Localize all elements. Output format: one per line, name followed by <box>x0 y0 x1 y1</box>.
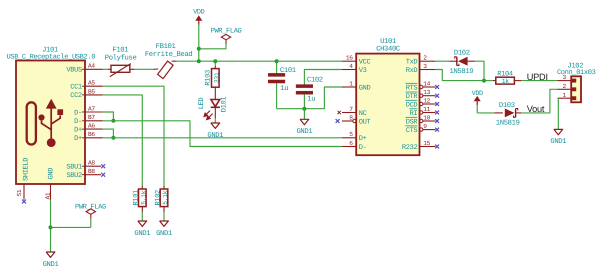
no-connect flag on pin 13 <box>435 94 439 98</box>
wire R104 to J102 pin 3 (UPDI net) <box>521 80 558 82</box>
U101 pin 6 (D-) <box>342 146 356 148</box>
svg-text:1u: 1u <box>307 95 315 103</box>
svg-text:A7: A7 <box>88 105 95 112</box>
svg-text:CTS: CTS <box>406 127 418 135</box>
svg-text:R103: R103 <box>205 70 213 86</box>
ground GND1 under J102 <box>554 129 563 134</box>
svg-text:B5: B5 <box>88 88 95 95</box>
wire VDD rail to U101 VCC <box>176 60 342 62</box>
svg-text:1N5819: 1N5819 <box>496 120 520 128</box>
svg-text:S1: S1 <box>16 189 23 196</box>
svg-text:15: 15 <box>423 140 430 147</box>
svg-text:R232: R232 <box>402 144 418 152</box>
svg-text:OUT: OUT <box>359 118 371 126</box>
J101 pin S1 (SHIELD) <box>23 184 25 200</box>
svg-text:D103: D103 <box>499 102 515 110</box>
J101 pin A1 (GND) <box>50 184 52 200</box>
wire D- to U101 pin 6 <box>103 121 342 147</box>
svg-text:D-: D- <box>74 109 82 117</box>
svg-text:DSR: DSR <box>406 118 419 126</box>
svg-text:A1: A1 <box>44 192 51 199</box>
no-connect flag on SHIELD pin <box>22 200 26 204</box>
svg-text:CC2: CC2 <box>70 92 82 100</box>
svg-text:USB_C_Receptacle_USB2.0: USB_C_Receptacle_USB2.0 <box>7 53 96 62</box>
diode D102 1N5819 <box>449 60 458 62</box>
U101 pin 11 (RI) <box>420 111 423 114</box>
svg-text:RTS: RTS <box>406 84 418 92</box>
ferrite bead FB101 <box>153 68 158 70</box>
J101 pin B7 (D-) <box>85 120 103 122</box>
svg-text:C102: C102 <box>307 77 323 85</box>
wire RxD to UPDI node <box>435 70 484 81</box>
svg-text:CH340C: CH340C <box>376 46 401 54</box>
capacitor C101 <box>268 73 285 76</box>
svg-text:1u: 1u <box>280 85 288 93</box>
junction caps ground rail <box>302 107 306 111</box>
no-connect flag on pin 9 <box>435 128 439 132</box>
U101 pin 14 (RTS) <box>420 85 423 88</box>
junction UPDI node <box>482 79 486 83</box>
svg-text:5: 5 <box>349 131 353 138</box>
U101 pin 13 (DTR) <box>420 94 423 97</box>
svg-text:3: 3 <box>423 63 427 70</box>
U101 pin 8 (OUT) <box>342 120 353 122</box>
ground GND1 under R102 <box>160 221 169 226</box>
svg-text:D+: D+ <box>74 135 82 143</box>
J101 pin A4 (VBUS) <box>85 68 103 70</box>
svg-text:D+: D+ <box>359 135 367 143</box>
svg-text:B6: B6 <box>88 131 95 138</box>
J102 pin 2 <box>558 88 572 90</box>
svg-text:A4: A4 <box>88 63 95 70</box>
junction D- pair <box>111 119 115 123</box>
U101 pin 9 (CTS) <box>420 128 423 131</box>
wire V3 pin to C102 <box>304 70 342 85</box>
svg-text:D102: D102 <box>454 49 470 57</box>
svg-text:B7: B7 <box>88 114 95 121</box>
junction VDD rail at C101 drop <box>275 59 279 63</box>
svg-text:GND1: GND1 <box>550 138 566 146</box>
wire CC2 to R101 <box>103 95 143 185</box>
wire USB GND pin down <box>50 200 52 253</box>
U101 pin 15 (R232) <box>420 146 436 148</box>
svg-text:CC1: CC1 <box>70 84 82 92</box>
J101 pin A7 (D-) <box>85 111 103 113</box>
U101 pin 16 (VCC) <box>342 60 356 62</box>
svg-text:DTR: DTR <box>406 93 419 101</box>
wire J102 pin 1 to ground <box>557 98 559 129</box>
svg-text:GND1: GND1 <box>296 128 312 136</box>
connector J101 USB_C_Receptacle_USB2.0 body <box>16 61 85 185</box>
U101 pin 7 (NC) <box>342 112 356 114</box>
no-connect flag on pin 12 <box>435 102 439 106</box>
capacitor C102 <box>296 85 313 88</box>
svg-text:GND1: GND1 <box>207 132 223 140</box>
svg-text:5.1k: 5.1k <box>162 190 169 204</box>
J101 pin B8 (SBU2) <box>85 174 101 176</box>
wire CC1 to R102 <box>103 86 164 185</box>
wire VDD symbol down to rail <box>198 25 200 62</box>
LED D101 emission arrows <box>204 111 213 120</box>
J101 pin A5 (CC1) <box>85 85 103 87</box>
svg-text:14: 14 <box>423 80 430 87</box>
wire polyfuse to ferrite bead <box>135 68 154 70</box>
no-connect marker on pin 7 (NC type) <box>338 111 341 114</box>
svg-text:NC: NC <box>359 110 367 118</box>
wire D102 to UPDI node <box>475 61 484 80</box>
U101 pin 5 (D+) <box>342 137 356 139</box>
svg-text:7: 7 <box>349 106 353 113</box>
svg-text:C101: C101 <box>280 67 296 75</box>
svg-text:UPDI: UPDI <box>527 72 548 82</box>
junction VDD rail at R103 drop <box>213 59 217 63</box>
wire VDD to D103 <box>477 112 494 114</box>
svg-text:9: 9 <box>423 123 427 130</box>
svg-text:RI: RI <box>410 110 418 118</box>
svg-text:VBUS: VBUS <box>66 67 82 75</box>
ground GND1 under R101 <box>138 221 147 226</box>
LED D101 <box>211 100 220 107</box>
U101 pin 4 (V3) <box>342 69 356 71</box>
svg-text:1: 1 <box>349 80 353 87</box>
svg-text:A5: A5 <box>88 80 95 87</box>
svg-text:SBU1: SBU1 <box>66 164 82 172</box>
wire VDD symbol down to Vout rail <box>476 105 478 113</box>
no-connect flag on pin 10 <box>435 119 439 123</box>
U101 pin 2 (TxD) <box>420 60 436 62</box>
svg-text:4: 4 <box>349 63 353 70</box>
wire rail to C101 <box>276 61 278 73</box>
svg-text:2: 2 <box>423 55 427 62</box>
resistor R104 <box>493 80 496 82</box>
svg-text:D-: D- <box>74 118 82 126</box>
wire D103 to Vout / J102 pin 2 <box>521 89 557 113</box>
svg-text:12: 12 <box>423 97 430 104</box>
svg-text:VDD: VDD <box>193 9 204 17</box>
svg-text:6: 6 <box>349 140 353 147</box>
ground GND1 under LED <box>211 123 220 128</box>
svg-text:16: 16 <box>346 55 353 62</box>
svg-text:Ferrite_Bead: Ferrite_Bead <box>145 50 193 59</box>
svg-text:GND1: GND1 <box>156 230 172 238</box>
svg-text:TxD: TxD <box>406 59 418 67</box>
no-connect flag on pin 14 <box>435 85 439 89</box>
svg-text:FB101: FB101 <box>156 43 176 51</box>
no-connect flag on pin 15 <box>435 145 439 149</box>
junction D+ pair <box>111 136 115 140</box>
resistor R102 <box>163 185 165 189</box>
wire UPDI node to R104 <box>484 80 493 82</box>
USB logo pill shape <box>27 102 36 144</box>
svg-text:1N5819: 1N5819 <box>450 68 474 76</box>
diode D103 1N5819 <box>494 112 503 114</box>
U101 pin 12 (DCD) <box>420 102 423 105</box>
svg-text:331: 331 <box>213 72 220 83</box>
no-connect flag on pin 8 OUT <box>336 119 340 123</box>
wire VBUS pin to polyfuse <box>103 68 108 70</box>
J101 pin A8 (SBU1) <box>85 165 101 167</box>
wire D- A7 to B7 <box>103 112 114 121</box>
svg-text:11: 11 <box>423 106 430 113</box>
svg-text:V3: V3 <box>359 67 367 75</box>
wire LED cathode to ground <box>214 107 216 118</box>
wire PWR_FLAG to VDD net <box>199 44 226 49</box>
U101 pin 1 (GND) <box>342 86 356 88</box>
no-connect flag on SBU2 pin <box>101 173 105 177</box>
svg-text:SHIELD: SHIELD <box>22 158 30 181</box>
junction GND / PWR_FLAG <box>49 225 53 229</box>
no-connect flag on SBU1 pin <box>101 164 105 168</box>
svg-text:SBU2: SBU2 <box>66 172 82 180</box>
svg-text:VCC: VCC <box>359 59 371 67</box>
svg-text:A6: A6 <box>88 123 95 130</box>
polyfuse F101 <box>108 68 111 70</box>
wire ground rail under caps <box>277 87 342 109</box>
svg-text:Vout: Vout <box>527 104 545 114</box>
U101 pin 3 (RxD) <box>420 69 436 71</box>
J101 pin A6 (D+) <box>85 128 103 130</box>
wire R103 to LED D101 <box>214 87 216 99</box>
svg-text:Polyfuse: Polyfuse <box>105 53 137 62</box>
U101 pin 10 (DSR) <box>420 119 423 122</box>
junction VDD rail at VDD drop <box>197 59 201 63</box>
svg-text:DCD: DCD <box>406 101 418 109</box>
svg-text:10: 10 <box>423 114 430 121</box>
junction VDD / PWR_FLAG <box>197 47 201 51</box>
wire C102 bottom to ground rail <box>303 94 305 109</box>
wire rail to R103 <box>214 61 216 66</box>
resistor R103 <box>214 66 216 69</box>
svg-text:D101: D101 <box>221 97 229 113</box>
svg-text:D-: D- <box>359 144 367 152</box>
wire C101 bottom to ground rail <box>276 83 278 109</box>
resistor R101 <box>141 185 143 189</box>
svg-text:GND: GND <box>359 84 371 92</box>
J102 pin 3 <box>558 80 572 82</box>
ground GND1 under capacitors <box>300 119 309 124</box>
svg-text:5.1k: 5.1k <box>140 190 147 204</box>
wire PWR_FLAG bottom to GND net <box>51 226 91 228</box>
svg-text:A8: A8 <box>88 160 95 167</box>
svg-text:GND1: GND1 <box>43 261 59 269</box>
USB logo trident <box>42 107 61 140</box>
wire D+ to U101 pin 5 <box>103 137 342 139</box>
svg-text:PWR_FLAG: PWR_FLAG <box>75 204 106 212</box>
IC U101 CH340C body <box>356 54 419 156</box>
wire junction to ground symbol <box>303 109 305 120</box>
J101 pin B6 (D+) <box>85 137 103 139</box>
svg-text:GND: GND <box>48 168 56 180</box>
svg-text:GND1: GND1 <box>134 230 150 238</box>
wire D+ A6 to B6 <box>103 129 114 138</box>
connector J102 Conn_01x03 body <box>571 76 581 102</box>
J102 pin 1 <box>558 97 572 99</box>
wire TxD to D102 <box>435 60 449 62</box>
svg-text:LED: LED <box>198 98 206 110</box>
ground GND1 under USB connector <box>46 252 55 257</box>
svg-text:D+: D+ <box>74 126 82 134</box>
no-connect flag on pin 11 <box>435 111 439 115</box>
J101 pin B5 (CC2) <box>85 94 103 96</box>
svg-text:1k: 1k <box>502 78 509 85</box>
svg-text:B8: B8 <box>88 168 95 175</box>
svg-text:13: 13 <box>423 89 430 96</box>
svg-text:RxD: RxD <box>406 67 418 75</box>
